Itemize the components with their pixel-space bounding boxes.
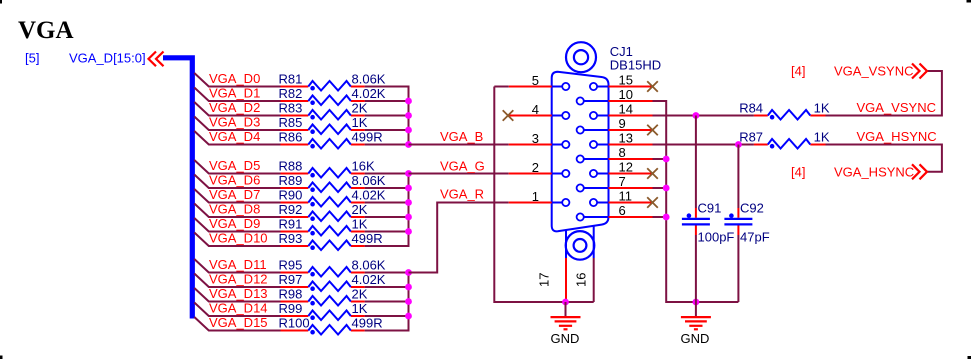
svg-text:VGA_HSYNC: VGA_HSYNC [857, 129, 937, 144]
wire VGA_D2 [194, 102, 408, 116]
pin 7 (right) [577, 174, 653, 192]
wire VGA_D11 [194, 259, 408, 273]
wire VGA_B [409, 144, 509, 146]
net label VGA_D[15:0] with sheet ref [5] [25, 51, 146, 66]
svg-text:R83: R83 [279, 101, 303, 116]
value 8.06K [352, 173, 386, 188]
svg-text:12: 12 [619, 160, 633, 175]
svg-text:4.02K: 4.02K [352, 272, 386, 287]
net label VGA_D7 [209, 187, 260, 202]
junction ground rail / pin17 [562, 299, 569, 306]
designator R90 [279, 188, 303, 203]
resistor R85 [281, 125, 365, 135]
wire pin14 / VGA_VSYNC net [653, 71, 942, 116]
net label VGA_G [440, 158, 485, 173]
pin 14 (right) [590, 102, 653, 120]
svg-text:VGA_D10: VGA_D10 [209, 231, 268, 246]
value 2K [352, 101, 368, 116]
designator R98 [279, 287, 303, 302]
svg-text:7: 7 [619, 174, 626, 189]
svg-text:1: 1 [532, 189, 539, 204]
svg-text:VGA_D7: VGA_D7 [209, 187, 260, 202]
value DB15HD [610, 58, 661, 73]
svg-text:VGA_D15: VGA_D15 [209, 315, 268, 330]
wire group VGA_R junction rail [408, 273, 410, 332]
svg-text:499R: 499R [352, 231, 383, 246]
wire VGA_D5 [194, 160, 408, 174]
value 2K [352, 287, 368, 302]
svg-text:VGA_D4: VGA_D4 [209, 129, 260, 144]
resistor R93 [281, 241, 365, 251]
pin 17 (bottom) [537, 258, 567, 302]
net label VGA_VSYNC (at R84) [857, 100, 936, 115]
junction ground rail / C91 branch [693, 299, 700, 306]
value 8.06K [352, 72, 386, 87]
svg-text:2K: 2K [352, 202, 368, 217]
svg-text:4.02K: 4.02K [352, 188, 386, 203]
designator R84 [739, 101, 763, 116]
wire pin13 / VGA_HSYNC net [653, 145, 942, 172]
net label VGA_D6 [209, 173, 260, 188]
value 16K [352, 159, 375, 174]
net label VGA_D3 [209, 115, 260, 130]
wire pin5 to ground rail [494, 87, 593, 303]
resistor R83 [281, 110, 365, 120]
net label VGA_HSYNC (at R87) [857, 129, 937, 144]
designator R88 [279, 159, 303, 174]
svg-text:100pF: 100pF [698, 230, 735, 245]
svg-text:15: 15 [619, 73, 633, 88]
ground symbol GND (right) [681, 302, 711, 329]
svg-text:R91: R91 [279, 217, 303, 232]
svg-text:8.06K: 8.06K [352, 258, 386, 273]
svg-text:13: 13 [619, 131, 633, 146]
svg-text:2K: 2K [352, 101, 368, 116]
wire VGA_D4 [194, 131, 408, 145]
svg-text:R87: R87 [739, 130, 763, 145]
designator R83 [279, 101, 303, 116]
svg-text:R98: R98 [279, 287, 303, 302]
designator R86 [279, 130, 303, 145]
svg-text:R95: R95 [279, 258, 303, 273]
wire grounded pins 10/8/7/6 [653, 101, 739, 302]
svg-text:VGA_D6: VGA_D6 [209, 173, 260, 188]
net label VGA_B [440, 129, 483, 144]
title VGA [18, 17, 74, 44]
ground symbol GND (left) [551, 302, 581, 329]
wire group VGA_G junction rail [408, 174, 410, 248]
net label VGA_D11 [209, 257, 267, 272]
wire VGA_G [409, 173, 509, 175]
wire VGA_D6 [194, 175, 408, 189]
pin 2 (left) [509, 160, 570, 177]
svg-text:14: 14 [619, 102, 633, 117]
wire VGA_D14 [194, 303, 408, 317]
value 1K [352, 115, 368, 130]
resistor R95 [281, 267, 365, 277]
svg-text:C92: C92 [740, 201, 764, 216]
svg-text:499R: 499R [352, 316, 383, 331]
svg-text:R88: R88 [279, 159, 303, 174]
resistor R89 [281, 183, 365, 193]
wire VGA_D1 [194, 88, 408, 102]
resistor R100 [281, 325, 365, 335]
svg-text:VGA_D[15:0]: VGA_D[15:0] [69, 51, 146, 66]
resistor R87 [754, 139, 826, 149]
pin 12 (right) [590, 160, 658, 179]
designator R100 [279, 316, 310, 331]
wire VGA_D13 [194, 288, 408, 302]
junction dots group1 [405, 98, 412, 148]
svg-text:4.02K: 4.02K [352, 86, 386, 101]
connector bottom mounting hole with ears [566, 227, 595, 260]
svg-text:499R: 499R [352, 130, 383, 145]
wire VGA_D15 [194, 317, 408, 331]
svg-text:9: 9 [619, 116, 626, 131]
svg-text:C91: C91 [698, 201, 722, 216]
svg-text:VGA_D9: VGA_D9 [209, 216, 260, 231]
wire C92 branch [737, 145, 739, 303]
svg-text:11: 11 [619, 189, 633, 204]
svg-text:VGA_D14: VGA_D14 [209, 301, 268, 316]
pin 5 (left) [509, 73, 570, 90]
wire VGA_D10 [194, 233, 408, 247]
designator R81 [279, 72, 303, 87]
value 4.02K [352, 272, 386, 287]
svg-text:R90: R90 [279, 188, 303, 203]
svg-text:R97: R97 [279, 272, 303, 287]
svg-text:R81: R81 [279, 72, 303, 87]
connector CJ1 DB15HD body [552, 72, 609, 232]
capacitor C91 [682, 208, 710, 235]
designator R95 [279, 258, 303, 273]
wire VGA_D9 [194, 218, 408, 232]
svg-text:VGA_D3: VGA_D3 [209, 115, 260, 130]
svg-text:R100: R100 [279, 316, 310, 331]
svg-text:R84: R84 [739, 101, 763, 116]
designator R97 [279, 272, 303, 287]
wire VGA_D3 [194, 117, 408, 131]
svg-text:VGA_D12: VGA_D12 [209, 272, 268, 287]
connector top mounting hole [566, 42, 596, 72]
resistor R98 [281, 296, 365, 306]
svg-text:VGA_D0: VGA_D0 [209, 71, 260, 86]
net label VGA_D4 [209, 129, 260, 144]
svg-text:VGA_R: VGA_R [440, 186, 484, 201]
resistor R92 [281, 212, 365, 222]
resistor R82 [281, 96, 365, 106]
pin 1 (left) [509, 189, 570, 206]
value 499R [352, 316, 383, 331]
svg-text:VGA_VSYNC: VGA_VSYNC [857, 100, 936, 115]
value 8.06K [352, 258, 386, 273]
pin 3 (left) [509, 131, 570, 148]
designator R87 [739, 130, 763, 145]
designator C92 [740, 201, 764, 216]
net label VGA_D15 [209, 315, 268, 330]
pin 16 (bottom) [574, 258, 594, 302]
svg-text:8.06K: 8.06K [352, 72, 386, 87]
svg-text:DB15HD: DB15HD [610, 58, 661, 73]
svg-text:17: 17 [537, 273, 552, 287]
pin 11 (right) [590, 189, 658, 208]
value 47pF [740, 230, 770, 245]
designator R92 [279, 202, 303, 217]
pin 4 (left) [503, 102, 570, 121]
svg-text:R82: R82 [279, 86, 303, 101]
resistor R88 [281, 168, 365, 178]
resistor R99 [281, 311, 365, 321]
net label VGA_D10 [209, 231, 268, 246]
designator R99 [279, 301, 303, 316]
pin 13 (right) [590, 131, 653, 149]
junction dots group2 [405, 170, 412, 235]
designator C91 [698, 201, 722, 216]
designator R89 [279, 173, 303, 188]
svg-text:R89: R89 [279, 173, 303, 188]
net label VGA_D12 [209, 272, 268, 287]
svg-text:4: 4 [532, 102, 539, 117]
svg-text:R85: R85 [279, 115, 303, 130]
value 1K (R84) [814, 101, 830, 116]
resistor R81 [281, 81, 365, 91]
svg-text:VGA_D1: VGA_D1 [209, 86, 260, 101]
off-page connector VGA_HSYNC [791, 164, 927, 179]
resistor R84 [754, 110, 826, 120]
svg-text:[4]: [4] [791, 64, 805, 79]
pin 15 (right) [590, 73, 658, 92]
junction pin13 / C92 [735, 141, 742, 148]
svg-text:5: 5 [532, 73, 539, 88]
svg-text:R93: R93 [279, 231, 303, 246]
svg-text:R92: R92 [279, 202, 303, 217]
value 4.02K [352, 86, 386, 101]
resistor R86 [281, 139, 365, 149]
svg-text:10: 10 [619, 87, 633, 102]
resistor R97 [281, 282, 365, 292]
pin 8 (right) [577, 145, 653, 163]
junction dots group3 [405, 269, 412, 319]
value 1K [352, 301, 368, 316]
designator R91 [279, 217, 303, 232]
svg-text:2K: 2K [352, 287, 368, 302]
svg-text:8.06K: 8.06K [352, 173, 386, 188]
svg-text:1K: 1K [352, 217, 368, 232]
net label VGA_D5 [209, 158, 260, 173]
value 4.02K [352, 188, 386, 203]
svg-text:16: 16 [574, 273, 589, 287]
net label VGA_D14 [209, 301, 268, 316]
svg-text:VGA_D11: VGA_D11 [209, 257, 267, 272]
svg-text:GND: GND [551, 331, 580, 346]
wire VGA_D12 [194, 274, 408, 288]
net label VGA_D0 [209, 71, 260, 86]
svg-text:[4]: [4] [791, 164, 805, 179]
designator R93 [279, 231, 303, 246]
wire VGA_D7 [194, 189, 408, 203]
svg-text:1K: 1K [352, 301, 368, 316]
net label VGA_D2 [209, 100, 260, 115]
svg-text:6: 6 [619, 203, 626, 218]
svg-text:VGA_D5: VGA_D5 [209, 158, 260, 173]
net label GND (left) [551, 331, 580, 346]
wire group VGA_B junction rail [408, 86, 410, 145]
svg-text:VGA_D13: VGA_D13 [209, 286, 268, 301]
svg-text:[5]: [5] [25, 51, 39, 66]
value 499R [352, 231, 383, 246]
svg-text:VGA_HSYNC: VGA_HSYNC [834, 164, 914, 179]
wire VGA_R [409, 203, 509, 273]
wire VGA_D8 [194, 204, 408, 218]
svg-text:8: 8 [619, 145, 626, 160]
net label GND (right) [681, 331, 710, 346]
net label VGA_D13 [209, 286, 268, 301]
svg-text:VGA_B: VGA_B [440, 129, 483, 144]
net label VGA_D1 [209, 86, 260, 101]
svg-text:VGA_VSYNC: VGA_VSYNC [834, 64, 913, 79]
svg-text:VGA_D8: VGA_D8 [209, 202, 260, 217]
svg-text:1K: 1K [814, 101, 830, 116]
pin 9 (right) [577, 116, 658, 135]
wire C91 branch [695, 116, 697, 303]
svg-text:47pF: 47pF [740, 230, 770, 245]
net label VGA_R [440, 186, 484, 201]
value 1K (R87) [814, 130, 830, 145]
wire VGA_D0 [194, 73, 408, 87]
value 499R [352, 130, 383, 145]
off-page connector VGA_VSYNC [791, 64, 927, 79]
svg-text:1K: 1K [352, 115, 368, 130]
designator R85 [279, 115, 303, 130]
svg-text:VGA_G: VGA_G [440, 158, 485, 173]
capacitor C92 [724, 208, 752, 235]
svg-text:R99: R99 [279, 301, 303, 316]
svg-text:2: 2 [532, 160, 539, 175]
bus entry chevron << [149, 52, 164, 67]
pin 10 (right) [577, 87, 653, 105]
bus VGA_D[15:0] [163, 58, 192, 319]
junction pin14 / C91 [693, 112, 700, 119]
value 100pF [698, 230, 735, 245]
value 1K [352, 217, 368, 232]
svg-text:3: 3 [532, 131, 539, 146]
resistor R90 [281, 197, 365, 207]
svg-text:VGA_D2: VGA_D2 [209, 100, 260, 115]
resistor R91 [281, 226, 365, 236]
svg-text:GND: GND [681, 331, 710, 346]
svg-text:R86: R86 [279, 130, 303, 145]
svg-text:16K: 16K [352, 159, 375, 174]
svg-text:1K: 1K [814, 130, 830, 145]
net label VGA_D9 [209, 216, 260, 231]
value 2K [352, 202, 368, 217]
svg-text:VGA: VGA [18, 17, 74, 44]
designator R82 [279, 86, 303, 101]
designator CJ1 [610, 44, 633, 59]
net label VGA_D8 [209, 202, 260, 217]
junction dots grounded pins [663, 156, 670, 221]
pin 6 (right) [577, 203, 653, 221]
